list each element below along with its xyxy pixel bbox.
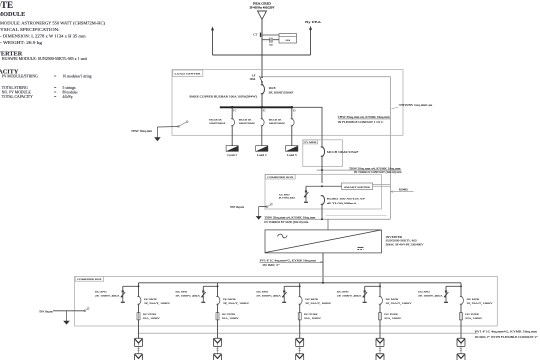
PV module 5a bbox=[457, 338, 465, 346]
wire module link 2 bbox=[217, 347, 219, 354]
svg-text:SMART METER: SMART METER bbox=[344, 186, 371, 189]
PV MDB enclosure box bbox=[303, 140, 343, 167]
wire arrow bar bbox=[213, 54, 311, 56]
disconnect switch S.F 200A bbox=[260, 76, 263, 83]
wire string 5 drop bbox=[460, 283, 462, 297]
COMBINER BOX (AC) enclosure bbox=[265, 174, 381, 209]
wire stub above inverter junction bbox=[326, 214, 387, 216]
wire breaker to load 2 bbox=[261, 126, 263, 146]
svg-text:- WEIGHT: 26.9 kg: - WEIGHT: 26.9 kg bbox=[0, 40, 43, 45]
PV module 3a bbox=[296, 338, 304, 346]
wire MCB to fuse 3 bbox=[299, 304, 301, 312]
svg-text:CT: CT bbox=[253, 33, 257, 37]
svg-text:4P, TYPE2, 40kA: 4P, TYPE2, 40kA bbox=[279, 197, 296, 200]
svg-text:RCBO 100 AT/125 AF: RCBO 100 AT/125 AF bbox=[327, 198, 366, 201]
svg-text:200A: 200A bbox=[250, 78, 256, 81]
node busbar junction 3 bbox=[291, 106, 294, 109]
wire jog into inverter bbox=[327, 219, 329, 230]
svg-text:DC MCB: DC MCB bbox=[386, 298, 399, 301]
svg-text:PV MDB: PV MDB bbox=[304, 142, 317, 144]
svg-text:DC MCB: DC MCB bbox=[144, 298, 157, 301]
cable label rule (PV DC main) bbox=[260, 261, 323, 263]
wire smart meter to grid tap (lower) bbox=[373, 185, 391, 187]
svg-text:HUAWEI MODULE: SUN2000-50KTL-M: HUAWEI MODULE: SUN2000-50KTL-M3 x 1 unit bbox=[2, 56, 88, 61]
svg-text:DC SPD: DC SPD bbox=[256, 290, 268, 293]
svg-text:BARE COPPER BUSBAR 100A 100%(3: BARE COPPER BUSBAR 100A 100%(3P4W) bbox=[189, 95, 256, 99]
DC fuse 5 bbox=[460, 313, 463, 320]
wire VT to meter bbox=[273, 39, 279, 41]
wire breaker to load 3 bbox=[291, 126, 293, 146]
note text block bbox=[0, 0, 105, 99]
node busbar junction 1 bbox=[231, 106, 234, 109]
wire CT secondary to kWh meter bbox=[262, 34, 279, 36]
branch breaker MCCB 3P 100AT/250AF (2) bbox=[261, 119, 265, 126]
PV MDB tag bbox=[303, 140, 318, 144]
svg-text:VT: VT bbox=[269, 44, 273, 47]
svg-text:THW 16sq.mm: THW 16sq.mm bbox=[39, 309, 53, 313]
wire module link 5 bbox=[460, 347, 462, 354]
cable label rule (PV strings) bbox=[139, 332, 479, 334]
wire inverter DC to combiner bbox=[322, 253, 324, 283]
svg-text:MODULE: MODULE bbox=[0, 11, 25, 18]
surge protector DC SPD 2 bbox=[201, 286, 206, 303]
breaker RCBO 100AT/125AF bbox=[321, 196, 325, 205]
wire string 1 SPD tap bbox=[123, 285, 139, 287]
node string 1 crossing bbox=[138, 333, 139, 334]
wire grid tap to smart meter (right riser) bbox=[263, 77, 391, 220]
DC breaker MCB 3 bbox=[299, 297, 303, 305]
svg-text:DC MCB: DC MCB bbox=[305, 298, 318, 301]
svg-text:DC FUSE: DC FUSE bbox=[222, 313, 236, 316]
wire busbar to PV MDB bbox=[292, 107, 322, 146]
svg-text:2P, 25A/T, 1000V: 2P, 25A/T, 1000V bbox=[305, 302, 331, 305]
svg-text:3P 400Vac 400/230V: 3P 400Vac 400/230V bbox=[250, 7, 275, 10]
svg-text:100AT/250AF: 100AT/250AF bbox=[209, 122, 226, 125]
svg-text:2P, 1000V, 40kA: 2P, 1000V, 40kA bbox=[95, 295, 120, 298]
ground electrode (load center) bbox=[154, 127, 161, 141]
wire to earth (DC combiner) bbox=[53, 310, 85, 312]
wire MCB to fuse 2 bbox=[217, 304, 219, 312]
copper busbar bbox=[220, 106, 292, 108]
node string 5 crossing bbox=[460, 333, 461, 334]
node string 2 crossing bbox=[217, 333, 218, 334]
wire module link 3 bbox=[299, 347, 301, 354]
svg-text:2P, 25A/T, 1000V: 2P, 25A/T, 1000V bbox=[467, 302, 493, 305]
COMBINER BOX (DC) enclosure bbox=[75, 276, 498, 326]
svg-text:100AT/250AF: 100AT/250AF bbox=[239, 122, 256, 125]
svg-text:THW65 1sq.mm ea: THW65 1sq.mm ea bbox=[399, 103, 433, 107]
wire string 4 drop bbox=[379, 283, 381, 297]
COMBINER BOX (DC) tag bbox=[75, 276, 103, 281]
load 2 symbol bbox=[256, 146, 268, 152]
svg-text:IN IMC 2": IN IMC 2" bbox=[263, 263, 281, 267]
svg-text:DC FUSE: DC FUSE bbox=[465, 313, 479, 316]
svg-text:3P, 100AT/250AF: 3P, 100AT/250AF bbox=[269, 91, 294, 94]
branch breaker MCCB 1 wire bbox=[231, 107, 233, 118]
load 3 symbol bbox=[286, 146, 298, 152]
node junction on PV feeder bbox=[321, 169, 323, 171]
inverter DC symbol bbox=[358, 247, 364, 249]
node string 4 SPD tap bbox=[379, 285, 381, 287]
node string 3 crossing bbox=[299, 333, 300, 334]
ground electrode (DC combiner) bbox=[63, 311, 70, 325]
PV module 1a bbox=[135, 338, 143, 346]
branch breaker MCCB 3 wire bbox=[291, 107, 293, 118]
import energy arrow bbox=[211, 26, 214, 55]
svg-text:TOTAL CAPACITY: TOTAL CAPACITY bbox=[2, 94, 33, 99]
svg-text:Load 3: Load 3 bbox=[287, 153, 297, 157]
svg-text:PV MODULE/STRING: PV MODULE/STRING bbox=[2, 74, 38, 79]
node string 2 SPD tap bbox=[217, 285, 219, 287]
surge protector AC SPD bbox=[304, 186, 309, 203]
branch breaker MCCB 3P 100AT/250AF (1) bbox=[231, 119, 235, 126]
wire smart meter to grid tap (upper) bbox=[373, 183, 391, 185]
main breaker MCCB 3P 100AT/250AF bbox=[261, 82, 263, 85]
node string 5 SPD tap bbox=[460, 285, 462, 287]
svg-text:IN IMC 2" WITH FLEXIBLE CONDUI: IN IMC 2" WITH FLEXIBLE CONDUIT 2" bbox=[475, 335, 539, 339]
load 1 symbol bbox=[226, 146, 238, 152]
wire MCB to fuse 5 bbox=[460, 304, 462, 312]
svg-text:- DIMENSION: L 2278 x W 1134 x: - DIMENSION: L 2278 x W 1134 x H 35 mm bbox=[0, 34, 86, 39]
node SPD/meter junction bbox=[321, 185, 323, 187]
svg-text:IN TORROI ET SIZE (16x10) mm: IN TORROI ET SIZE (16x10) mm bbox=[264, 220, 309, 224]
svg-text:Load 2: Load 2 bbox=[257, 153, 267, 157]
node string 1 SPD tap bbox=[138, 285, 140, 287]
svg-text:32A, 1000V: 32A, 1000V bbox=[465, 317, 482, 320]
DC fuse 1 bbox=[137, 313, 140, 320]
svg-text:DC SPD: DC SPD bbox=[418, 290, 430, 293]
PV module 2a bbox=[214, 338, 222, 346]
svg-text:COMBINER BOX: COMBINER BOX bbox=[267, 177, 293, 179]
svg-text:MODULE: ASTRONERGY 550 WATT (C: MODULE: ASTRONERGY 550 WATT (CHSM72M-HC) bbox=[0, 20, 105, 25]
cable label rule (load center feed) bbox=[338, 118, 391, 120]
svg-text:By PEA: By PEA bbox=[305, 21, 321, 24]
wire string 3 drop bbox=[299, 283, 301, 297]
wire fuse to PV string 5 bbox=[460, 320, 462, 339]
svg-text:THW 16sq.mm: THW 16sq.mm bbox=[230, 206, 245, 209]
earth link (DC combiner) bbox=[84, 308, 89, 312]
PV module 1b bbox=[135, 354, 143, 360]
wire MCB to fuse 4 bbox=[379, 304, 381, 312]
wire fuse to PV string 4 bbox=[379, 320, 381, 339]
cable label rule (PV MDB out) bbox=[317, 169, 402, 171]
svg-text:MCCB: MCCB bbox=[269, 87, 276, 90]
CT current transformer tick bbox=[260, 33, 262, 37]
earth link (AC combiner) bbox=[266, 203, 272, 207]
wire module link 1 bbox=[138, 347, 140, 354]
wire MCB to fuse 1 bbox=[138, 304, 140, 312]
PV module 5b bbox=[457, 354, 465, 360]
svg-text:DC MCB: DC MCB bbox=[223, 298, 236, 301]
DC breaker MCB 2 bbox=[216, 297, 220, 305]
PV module 2b bbox=[214, 354, 222, 360]
svg-text:32A, 1000V: 32A, 1000V bbox=[143, 317, 160, 320]
node busbar junction 2 bbox=[261, 106, 264, 109]
node string 4 crossing bbox=[379, 333, 380, 334]
wire string 5 SPD tap bbox=[446, 285, 461, 287]
node string 3 SPD tap bbox=[299, 285, 301, 287]
svg-text:LOAD CENTER: LOAD CENTER bbox=[175, 73, 201, 76]
wire string 3 SPD tap bbox=[284, 285, 300, 287]
branch breaker MCCB 3P 100AT/250AF (3) bbox=[291, 119, 295, 126]
DC breaker MCB 1 bbox=[137, 297, 141, 305]
svg-text:16 modules/1 string: 16 modules/1 string bbox=[63, 74, 92, 79]
ground electrode (AC combiner) bbox=[256, 207, 262, 220]
svg-text:DC FUSE: DC FUSE bbox=[384, 313, 398, 316]
svg-text:32A, 1000V: 32A, 1000V bbox=[304, 317, 321, 320]
branch breaker MCCB 2 wire bbox=[261, 107, 263, 118]
svg-text:2P, 25A/T, 1000V: 2P, 25A/T, 1000V bbox=[386, 302, 412, 305]
svg-text:2P, 25A/T, 1000V: 2P, 25A/T, 1000V bbox=[144, 302, 170, 305]
svg-text:PEA GRID: PEA GRID bbox=[253, 1, 271, 5]
utility grid symbol (triangle) bbox=[258, 11, 267, 19]
svg-text:DC MCB: DC MCB bbox=[467, 298, 480, 301]
svg-text:DC SPD: DC SPD bbox=[176, 290, 188, 293]
wire fuse to PV string 3 bbox=[299, 320, 301, 339]
svg-text:DC FUSE: DC FUSE bbox=[304, 313, 318, 316]
svg-text:32A, 1000V: 32A, 1000V bbox=[384, 317, 401, 320]
node junction inverter AC bbox=[321, 218, 323, 220]
svg-text:100AT/250AF: 100AT/250AF bbox=[269, 122, 286, 125]
wire string 2 drop bbox=[217, 283, 219, 297]
wire VT branch bbox=[262, 39, 269, 41]
VT voltage transformer bars bbox=[270, 38, 272, 43]
DC fuse 2 bbox=[216, 313, 219, 320]
export energy arrow (By PEA) bbox=[309, 26, 312, 55]
svg-text:RS485: RS485 bbox=[399, 187, 409, 191]
LOAD CENTER enclosure box bbox=[172, 70, 403, 136]
svg-text:DC SPD: DC SPD bbox=[337, 290, 349, 293]
wire module link 4 bbox=[379, 347, 381, 354]
svg-text:YSICAL SPECIFICATION:: YSICAL SPECIFICATION: bbox=[0, 27, 60, 32]
surge protector DC SPD 4 bbox=[362, 286, 367, 303]
wire breaker to load 1 bbox=[231, 126, 233, 146]
wire string 4 SPD tap bbox=[365, 285, 380, 287]
wire fuse to PV string 1 bbox=[138, 320, 140, 339]
svg-text:2P, 1000V, 40kA: 2P, 1000V, 40kA bbox=[256, 295, 281, 298]
svg-text:2P, 1000V, 40kA: 2P, 1000V, 40kA bbox=[418, 295, 443, 298]
inverter AC symbol (~) bbox=[277, 234, 287, 238]
PV module 4b bbox=[376, 354, 384, 360]
svg-text:DC SPD: DC SPD bbox=[95, 290, 107, 293]
wire/label rule AC combiner to inverter bbox=[264, 218, 390, 220]
svg-text:Load 1: Load 1 bbox=[227, 153, 237, 157]
svg-text:NOTE: NOTE bbox=[0, 0, 13, 10]
svg-text:COMBINER BOX: COMBINER BOX bbox=[77, 279, 102, 281]
svg-text:THW 16sq.mm: THW 16sq.mm bbox=[131, 129, 153, 133]
DC fuse 4 bbox=[379, 313, 382, 320]
inverter U1 box bbox=[265, 230, 382, 253]
svg-text:MCCB 100AT/125AF: MCCB 100AT/125AF bbox=[327, 150, 359, 154]
COMBINER BOX (AC) tag bbox=[265, 175, 295, 179]
wire RS485 bbox=[390, 191, 413, 193]
wire string 2 SPD tap bbox=[203, 285, 217, 287]
svg-text:DC FUSE: DC FUSE bbox=[143, 313, 157, 316]
svg-text:2P, 1000V, 40kA: 2P, 1000V, 40kA bbox=[337, 295, 362, 298]
wire string 1 drop bbox=[138, 283, 140, 297]
surge protector DC SPD 1 bbox=[120, 286, 125, 303]
svg-text:IN FLEXIBLE CONDUIT 1 1/2 C: IN FLEXIBLE CONDUIT 1 1/2 C bbox=[338, 120, 384, 124]
earth link (load center) bbox=[178, 121, 188, 128]
svg-text:2P, 25A/T, 1000V: 2P, 25A/T, 1000V bbox=[223, 302, 249, 305]
PV breaker MCCB 100AT/125AF bbox=[321, 147, 325, 156]
wire to earth (load center) bbox=[157, 126, 178, 129]
node DC bus / inverter junction bbox=[322, 282, 324, 284]
DC breaker MCB 5 bbox=[460, 297, 464, 305]
LOAD CENTER tag bbox=[173, 70, 203, 76]
svg-text:32A, 1000V: 32A, 1000V bbox=[222, 317, 239, 320]
svg-text:44 kWp: 44 kWp bbox=[63, 94, 73, 99]
wire to earth (AC combiner) bbox=[259, 206, 267, 208]
wire junction to SPD and smart meter bbox=[306, 185, 342, 187]
SMART METER box bbox=[342, 183, 373, 190]
surge protector DC SPD 5 bbox=[444, 286, 449, 303]
kWh meter box bbox=[279, 34, 297, 43]
DC fuse 3 bbox=[298, 313, 301, 320]
PV module 4a bbox=[376, 338, 384, 346]
wire label arrow bbox=[391, 107, 398, 108]
PV module 3b bbox=[296, 354, 304, 360]
svg-text:IN TORROI CONDUIT (16x10) mm: IN TORROI CONDUIT (16x10) mm bbox=[354, 170, 402, 174]
DC bus bbox=[139, 282, 462, 284]
surge protector DC SPD 3 bbox=[282, 286, 287, 303]
DC breaker MCB 4 bbox=[379, 297, 383, 305]
svg-text:2P, 1000V, 40kA: 2P, 1000V, 40kA bbox=[176, 295, 201, 298]
wire grid to switch (main riser) bbox=[261, 19, 263, 77]
wire fuse to PV string 2 bbox=[217, 320, 219, 339]
svg-text:4P TL/30,300mA: 4P TL/30,300mA bbox=[327, 202, 357, 205]
